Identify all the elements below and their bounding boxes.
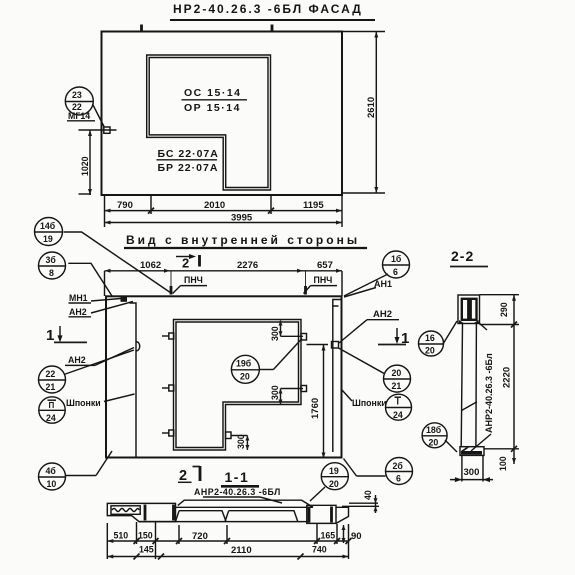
inner dim row 1062/2276/657 bbox=[105, 260, 343, 273]
svg-text:2: 2 bbox=[182, 256, 189, 271]
extension line right bbox=[341, 271, 343, 296]
svg-text:18б: 18б bbox=[426, 425, 442, 435]
left circle 4b/10 bbox=[39, 451, 113, 490]
inner opening (L-shape, double line) bbox=[174, 320, 302, 451]
AN2 tab right flange bbox=[332, 342, 339, 349]
svg-text:1020: 1020 bbox=[80, 156, 90, 176]
svg-text:Шпонки: Шпонки bbox=[352, 398, 387, 408]
svg-text:21: 21 bbox=[46, 382, 56, 392]
svg-text:АН2: АН2 bbox=[69, 307, 87, 317]
dim 290/2220/100 right bbox=[480, 295, 520, 471]
svg-text:21: 21 bbox=[392, 381, 402, 391]
svg-text:24: 24 bbox=[393, 410, 403, 420]
svg-text:20: 20 bbox=[425, 346, 435, 356]
fraction line bbox=[157, 159, 218, 161]
anchor square MG14 bbox=[104, 127, 110, 133]
svg-text:ПНЧ: ПНЧ bbox=[314, 275, 333, 285]
loop tick right bbox=[305, 271, 307, 287]
svg-text:БС 22·07А: БС 22·07А bbox=[158, 148, 219, 160]
left circle Ts/24 bbox=[39, 397, 65, 423]
label ANR2-40.26.3 -6BL bbox=[194, 487, 282, 503]
svg-text:20: 20 bbox=[392, 368, 402, 378]
rotated label ANR2 2-2 bbox=[471, 322, 494, 451]
svg-text:90: 90 bbox=[351, 531, 362, 542]
callout circle 19b/20 bbox=[231, 339, 302, 384]
dim row 790/2010/1195 bbox=[105, 200, 343, 214]
circle 16/20 bbox=[419, 321, 458, 356]
svg-text:23: 23 bbox=[72, 90, 82, 100]
label PNCh right bbox=[304, 275, 338, 294]
svg-text:1195: 1195 bbox=[303, 200, 324, 211]
svg-text:Вид с внутренней стороны: Вид с внутренней стороны bbox=[126, 233, 360, 247]
leader AN2 right bbox=[339, 320, 367, 343]
circle 18b/20 bbox=[422, 423, 457, 452]
section 1-1 dims row 2 bbox=[107, 545, 348, 560]
title 2-2 bbox=[450, 248, 488, 267]
svg-text:1062: 1062 bbox=[140, 260, 161, 271]
svg-text:165: 165 bbox=[321, 531, 336, 541]
section 2-2 top block bbox=[458, 295, 480, 324]
opening tabs left edge bbox=[162, 333, 174, 436]
svg-text:ПНЧ: ПНЧ bbox=[184, 275, 203, 285]
svg-text:4б: 4б bbox=[46, 466, 57, 476]
svg-text:2-2: 2-2 bbox=[451, 248, 474, 264]
svg-text:300: 300 bbox=[270, 385, 280, 400]
label AN2 left top bbox=[69, 302, 134, 318]
svg-text:АН2: АН2 bbox=[68, 355, 86, 365]
circle 20/21 right bbox=[384, 365, 411, 392]
callout circle 23/22 bbox=[65, 87, 93, 115]
dim row 3995 bbox=[105, 213, 343, 225]
svg-text:2276: 2276 bbox=[237, 260, 258, 271]
svg-text:145: 145 bbox=[139, 545, 154, 555]
window opening (L-shape, double line) bbox=[147, 55, 271, 190]
svg-text:2010: 2010 bbox=[204, 200, 225, 211]
svg-text:1760: 1760 bbox=[310, 398, 321, 419]
section marker 2 top bbox=[176, 254, 200, 271]
svg-text:40: 40 bbox=[363, 490, 373, 500]
left circle 3b/8 bbox=[39, 252, 113, 296]
svg-text:20: 20 bbox=[429, 438, 439, 448]
bold anchor marks left assembly bbox=[144, 505, 147, 521]
svg-text:Шпонки: Шпонки bbox=[66, 398, 101, 408]
svg-text:1б: 1б bbox=[391, 254, 402, 264]
svg-text:300: 300 bbox=[236, 434, 246, 449]
left circle 14b/19 bbox=[35, 218, 172, 294]
dim 1020 vertical bbox=[79, 130, 93, 195]
svg-text:8: 8 bbox=[49, 268, 54, 278]
section marker 2 bottom bbox=[178, 466, 200, 484]
inner panel outline bbox=[106, 296, 342, 457]
section 1-1 dims row 1 bbox=[107, 522, 361, 559]
AN2 tab left flange bbox=[136, 342, 140, 352]
svg-text:657: 657 bbox=[317, 260, 333, 271]
svg-text:19б: 19б bbox=[236, 359, 252, 369]
leader 1b/6 bbox=[344, 274, 388, 296]
svg-text:ОР 15·14: ОР 15·14 bbox=[184, 102, 241, 114]
circle T/24 right bbox=[386, 394, 412, 420]
lifting loop tick right bbox=[271, 25, 274, 32]
section 1-1 right block bbox=[307, 505, 349, 523]
svg-text:МН1: МН1 bbox=[69, 293, 88, 303]
dim 40 right bbox=[342, 490, 379, 513]
facade outline bbox=[102, 32, 343, 196]
dim 300 #1 bbox=[270, 321, 303, 342]
section marker 1 right bbox=[378, 328, 409, 347]
svg-text:I: I bbox=[397, 397, 399, 407]
extension line left bbox=[104, 271, 106, 296]
svg-text:300: 300 bbox=[270, 326, 280, 341]
svg-text:2110: 2110 bbox=[231, 545, 252, 556]
fraction line bbox=[182, 99, 248, 101]
svg-text:20: 20 bbox=[329, 479, 339, 489]
svg-text:19: 19 bbox=[329, 466, 339, 476]
svg-text:790: 790 bbox=[117, 200, 133, 211]
svg-text:АНР2-40.26.3 -6БЛ: АНР2-40.26.3 -6БЛ bbox=[194, 487, 281, 497]
dim 300 #3 bbox=[231, 434, 249, 450]
leader tab to circle 20/21 bbox=[339, 348, 386, 374]
svg-text:290: 290 bbox=[499, 302, 509, 317]
svg-text:2б: 2б bbox=[393, 461, 404, 471]
dim 300 bottom 2-2 bbox=[450, 455, 493, 482]
svg-text:БР 22·07А: БР 22·07А bbox=[158, 162, 219, 174]
MN1 anchor square (filled) bbox=[121, 297, 128, 302]
label MN1 bbox=[69, 293, 121, 303]
svg-text:24: 24 bbox=[46, 413, 56, 423]
svg-text:1-1: 1-1 bbox=[225, 469, 250, 485]
section 1-1 slab bbox=[139, 500, 313, 521]
circle 2b/6 bbox=[344, 458, 413, 485]
title inner view bbox=[124, 233, 367, 248]
svg-text:НР2-40.26.3 -6БЛ ФАСАД: НР2-40.26.3 -6БЛ ФАСАД bbox=[173, 2, 363, 16]
circle 19/20 bottom bbox=[310, 463, 348, 501]
svg-text:АН1: АН1 bbox=[374, 279, 392, 289]
leader MG14 to square bbox=[93, 104, 105, 128]
svg-text:740: 740 bbox=[312, 545, 327, 555]
left circle 22/21 bbox=[39, 350, 135, 393]
svg-text:10: 10 bbox=[47, 479, 57, 489]
tick through square bbox=[79, 129, 117, 131]
svg-text:6: 6 bbox=[396, 474, 401, 484]
circle 1b/6 bbox=[383, 251, 410, 278]
svg-text:19: 19 bbox=[43, 234, 53, 244]
svg-text:АНР2-40.26.3 -6Бл: АНР2-40.26.3 -6Бл bbox=[484, 353, 494, 433]
leader AN1 bbox=[344, 288, 376, 298]
dim 300 #2 bbox=[270, 385, 303, 404]
svg-text:22: 22 bbox=[46, 369, 56, 379]
dim 2610 right bbox=[342, 32, 385, 194]
loop tick left bbox=[170, 271, 172, 287]
svg-text:20: 20 bbox=[240, 372, 250, 382]
label PNCh left bbox=[173, 275, 207, 294]
svg-text:720: 720 bbox=[192, 531, 208, 542]
svg-text:100: 100 bbox=[498, 456, 508, 471]
svg-text:П: П bbox=[49, 401, 55, 410]
svg-text:ОС 15·14: ОС 15·14 bbox=[184, 87, 242, 99]
svg-text:6: 6 bbox=[393, 267, 398, 277]
svg-text:300: 300 bbox=[464, 467, 480, 478]
section 1-1 profile: left assembly bbox=[107, 503, 175, 521]
svg-text:3б: 3б bbox=[46, 255, 57, 265]
title facade bbox=[170, 2, 375, 20]
svg-text:16: 16 bbox=[425, 333, 435, 343]
left flange line bbox=[130, 303, 137, 458]
svg-text:1: 1 bbox=[46, 327, 54, 344]
section marker 1 left bbox=[46, 326, 87, 344]
section 2-2 bottom block bbox=[460, 447, 484, 456]
svg-text:2220: 2220 bbox=[502, 367, 513, 388]
label AN2 left mid bbox=[65, 348, 134, 366]
opening tabs right edge bbox=[226, 334, 307, 439]
dim 1760 bbox=[307, 345, 329, 459]
svg-text:АН2: АН2 bbox=[373, 309, 392, 320]
section 2-2 body bbox=[461, 324, 477, 448]
svg-text:150: 150 bbox=[138, 531, 153, 541]
title 1-1 bbox=[221, 469, 259, 486]
svg-text:3995: 3995 bbox=[231, 213, 253, 224]
svg-text:14б: 14б bbox=[40, 221, 56, 231]
facade bottom extension lines bbox=[104, 195, 106, 227]
right flange line bbox=[333, 306, 339, 452]
svg-text:2610: 2610 bbox=[366, 97, 377, 118]
lifting loop tick left bbox=[140, 25, 143, 32]
svg-text:510: 510 bbox=[114, 531, 129, 541]
svg-text:МГ14: МГ14 bbox=[68, 111, 90, 121]
